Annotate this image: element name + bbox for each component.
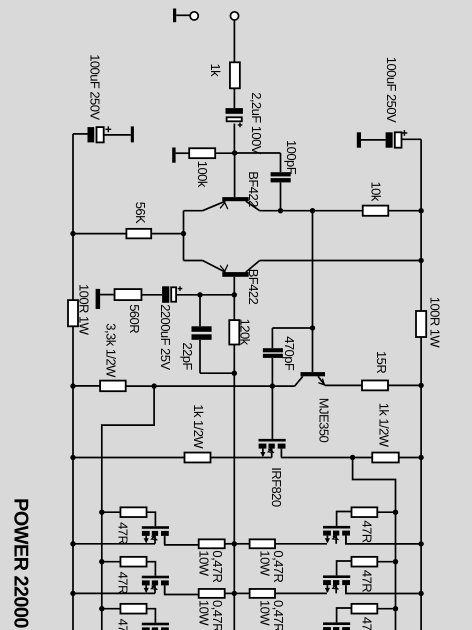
node: 15R at V+ rail xyxy=(418,383,423,388)
wire J1 to R-1k xyxy=(233,20,235,63)
output MOSFET upper bank row 1 xyxy=(323,526,350,544)
output MOSFET lower bank row 2 xyxy=(142,576,169,594)
wire 47R to gate (lower row 1) xyxy=(147,512,156,526)
wire output node to 0,47R (upper row 1) xyxy=(234,543,249,545)
svg-text:56K: 56K xyxy=(133,202,148,224)
svg-text:100uF 250V: 100uF 250V xyxy=(87,54,102,120)
wire IRF820 source down to 1k 1/2W (lower) xyxy=(210,457,271,459)
resistor R 100k xyxy=(172,148,234,188)
wire source to V- rail (lower row 2) xyxy=(73,592,155,594)
svg-text:IRF820: IRF820 xyxy=(269,467,284,507)
wire node B down to 2200uF xyxy=(200,294,234,296)
resistor R 47R (lower bank row 1) xyxy=(102,507,147,544)
resistor R 47R (lower bank row 3) xyxy=(102,604,147,630)
node: output line row 1 xyxy=(232,541,237,546)
svg-text:47R: 47R xyxy=(116,522,131,544)
wire MJE350 collector down xyxy=(154,385,295,387)
V+ rail with 100R 1W xyxy=(416,139,443,630)
capacitor C 2200uF 25V xyxy=(158,286,200,370)
resistor R 560R with wires xyxy=(100,289,162,333)
svg-text:560R: 560R xyxy=(127,304,142,333)
resistor R 15R xyxy=(362,351,389,390)
svg-text:100k: 100k xyxy=(195,161,210,188)
MJE350 base line from collector node xyxy=(312,211,314,372)
resistor R 0,47R 10W (upper row 1) xyxy=(250,539,286,582)
resistor R 0,47R 10W (upper row 2) xyxy=(250,589,286,630)
svg-text:120k: 120k xyxy=(238,319,253,346)
wire 0,47R to output node (lower row 1) xyxy=(225,543,235,545)
wire 2.2uF to input node xyxy=(233,124,235,153)
capacitor C 22pF with wires xyxy=(180,295,234,373)
wire 0,47R to output node (lower row 2) xyxy=(225,592,235,594)
wire 10k to V+ rail xyxy=(388,210,421,212)
svg-text:100uF 250V: 100uF 250V xyxy=(384,57,399,123)
wire Q2 base to node B xyxy=(233,277,235,295)
svg-text:47R: 47R xyxy=(116,572,131,594)
resistor R 120k on output line xyxy=(229,295,252,373)
resistor R 1k 1/2W (upper) xyxy=(372,403,399,463)
node: right gate rail row 1 xyxy=(393,510,398,515)
resistor R 1k 1/2W (lower) xyxy=(185,404,211,462)
node: emitter rail / 56K xyxy=(181,231,186,236)
wire drain up to V+ rail (upper row 1) xyxy=(346,537,421,544)
node: right gate rail tap xyxy=(350,455,355,460)
ground bar below 560R xyxy=(96,289,101,309)
wire tap node down to IRF820 drain xyxy=(281,457,352,459)
svg-text:47R: 47R xyxy=(116,619,131,630)
svg-text:100R 1W: 100R 1W xyxy=(77,284,92,336)
wire Q1 emitter down to emitter rail xyxy=(184,210,203,212)
left gate bias rail (to output FET gates) xyxy=(102,386,154,630)
node: collector line / MJE base line xyxy=(310,208,315,213)
output MOSFET lower bank row 1 xyxy=(142,526,169,544)
svg-text:47R: 47R xyxy=(360,570,375,592)
wire 0,47R to source (upper row 1) xyxy=(275,543,327,545)
node: Q2 collector at V+ rail xyxy=(418,258,423,263)
node: collector at 470pF line xyxy=(270,383,275,388)
resistor R 3,3k 1/2W with wire to V- rail xyxy=(73,323,154,391)
capacitor C 100uF 250V (V- side) xyxy=(73,54,134,142)
svg-text:47R: 47R xyxy=(360,520,375,542)
wire 47R to gate (upper row 3) xyxy=(337,608,352,622)
node: right gate rail row 2 xyxy=(393,559,398,564)
resistor R 1k xyxy=(208,62,240,88)
output MOSFET lower bank row 3 xyxy=(142,623,169,630)
wire MJE350 emitter to 15R xyxy=(325,384,362,386)
node: 22pF at output line xyxy=(232,371,237,376)
resistor R 47R (upper bank row 2) xyxy=(352,557,396,592)
capacitor C 470pF with wires xyxy=(263,328,313,386)
node: collector at 3,3k xyxy=(151,383,156,388)
svg-text:470pF: 470pF xyxy=(282,336,297,371)
node: left gate rail row 1 xyxy=(99,510,104,515)
svg-text:1k 1/2W: 1k 1/2W xyxy=(376,403,391,448)
wire V+ to 1k 1/2W (driver drain branch) xyxy=(399,457,421,459)
wire Q2 emitter down to emitter rail xyxy=(184,260,203,262)
node: 22pF branch xyxy=(197,292,202,297)
transistor Q1 BF422 xyxy=(203,171,262,210)
wire Q2 collector up to V+ rail xyxy=(260,260,421,262)
resistor R 47R (upper bank row 3) xyxy=(352,604,396,630)
resistor R 0,47R 10W (lower row 2) xyxy=(197,589,225,630)
svg-text:1k: 1k xyxy=(208,64,223,78)
svg-text:POWER 22000: POWER 22000 xyxy=(10,498,32,628)
svg-text:10k: 10k xyxy=(369,182,384,202)
svg-text:1k 1/2W: 1k 1/2W xyxy=(191,404,206,449)
wire input node to Q1 base xyxy=(234,153,236,197)
resistor R 47R (upper bank row 1) xyxy=(352,507,396,542)
node: 470pF branch on base line xyxy=(310,325,315,330)
wire 47R to gate (upper row 2) xyxy=(337,561,352,575)
wire 47R to gate (lower row 3) xyxy=(147,609,156,623)
svg-text:3,3k 1/2W: 3,3k 1/2W xyxy=(104,323,119,378)
wire drain up to 0,47R (lower row 1) xyxy=(165,537,199,545)
wire drain up to V+ rail (upper row 2) xyxy=(346,586,421,593)
resistor R 47R (lower bank row 2) xyxy=(102,557,147,594)
node: driver source at V- rail xyxy=(70,455,75,460)
node: driver branch at V+ rail xyxy=(418,455,423,460)
svg-text:22pF: 22pF xyxy=(180,342,195,370)
svg-text:2,2uF 100V: 2,2uF 100V xyxy=(249,92,264,155)
node: drain at V+ rail row 2 xyxy=(418,591,423,596)
wire 1k to V- rail xyxy=(73,457,185,459)
wire output node to 0,47R (upper row 2) xyxy=(234,592,249,594)
node: 56K at V- rail xyxy=(70,231,75,236)
wire 1k to C-2.2uF xyxy=(233,88,235,108)
wire Q1 collector line up to V+ via 10k xyxy=(260,210,363,212)
node: source at V- rail row 1 xyxy=(70,541,75,546)
svg-text:10W: 10W xyxy=(258,550,273,576)
svg-text:10W: 10W xyxy=(258,600,273,626)
wire 15R to V+ rail xyxy=(388,384,421,386)
wire 47R to gate (upper row 1) xyxy=(337,512,352,526)
resistor R 56K with wires to V- rail xyxy=(73,202,184,239)
node: right gate rail row 3 xyxy=(393,606,398,611)
node: left gate rail row 2 xyxy=(99,559,104,564)
svg-text:MJE350: MJE350 xyxy=(316,398,331,443)
node: output line row 2 xyxy=(232,591,237,596)
transistor Q2 BF422 (mirrored) xyxy=(203,261,262,305)
input signal terminal J1 xyxy=(230,12,238,20)
V- rail with 100R 1W xyxy=(68,134,92,630)
input ground terminal J2 xyxy=(173,9,198,23)
resistor R 10k xyxy=(363,182,389,216)
node: drain at V+ rail row 1 xyxy=(418,541,423,546)
emitter rail wire xyxy=(183,211,185,261)
svg-text:10W: 10W xyxy=(197,600,212,626)
wire 47R to gate (lower row 2) xyxy=(147,562,156,576)
node: 100pF to collector line xyxy=(278,208,283,213)
output MOSFET upper bank row 2 xyxy=(323,575,350,593)
driver MOSFET U1 IRF820 xyxy=(259,386,286,507)
svg-text:100R 1W: 100R 1W xyxy=(428,297,443,349)
wire drain up to 0,47R (lower row 2) xyxy=(165,586,199,594)
node: source at V- rail row 2 xyxy=(70,591,75,596)
resistor R 0,47R 10W (lower row 1) xyxy=(197,539,225,582)
svg-text:10W: 10W xyxy=(197,550,212,576)
node: input node xyxy=(232,150,237,155)
node: 10k at V+ rail xyxy=(418,208,423,213)
wire source to V- rail (lower row 1) xyxy=(73,543,155,545)
node B: feedback node xyxy=(232,292,237,297)
output MOSFET upper bank row 3 xyxy=(323,622,350,630)
svg-text:15R: 15R xyxy=(374,351,389,373)
capacitor C 100pF with wires xyxy=(235,140,299,211)
svg-text:100pF: 100pF xyxy=(284,140,299,175)
node: left gate rail row 3 xyxy=(99,606,104,611)
transistor Q3 MJE350 xyxy=(295,372,332,442)
wire 1k to right gate tap node xyxy=(353,457,373,459)
wire 0,47R to source (upper row 2) xyxy=(275,592,327,594)
capacitor 2,2uF 100V xyxy=(226,92,265,155)
right gate bias rail (to output FET gates) xyxy=(353,458,396,630)
capacitor C 100uF 250V (V+ side) xyxy=(357,57,421,148)
output line from 120k junction to edge xyxy=(233,373,235,630)
svg-text:2200uF 25V: 2200uF 25V xyxy=(158,304,173,370)
svg-text:BF422: BF422 xyxy=(246,269,261,305)
node: 3,3k at V- rail xyxy=(70,383,75,388)
svg-text:47R: 47R xyxy=(360,617,375,630)
svg-text:BF422: BF422 xyxy=(246,171,261,207)
